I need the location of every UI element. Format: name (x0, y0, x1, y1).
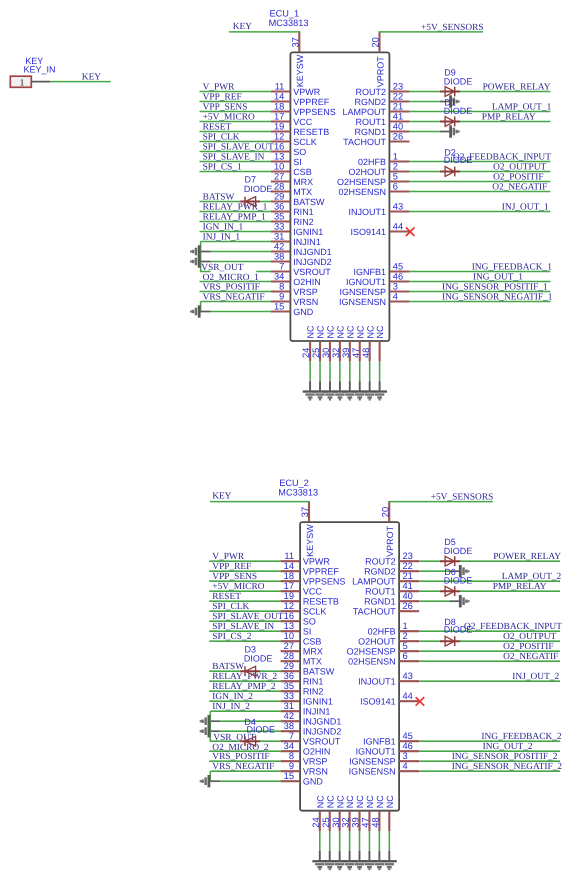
ground NC pin (382, 860, 397, 870)
svg-text:O2_NEGATIF: O2_NEGATIF (503, 652, 558, 662)
svg-text:INJOUT1: INJOUT1 (358, 677, 396, 687)
svg-text:BATSW: BATSW (212, 662, 244, 672)
svg-text:TACHOUT: TACHOUT (343, 137, 386, 147)
svg-text:TACHOUT: TACHOUT (353, 607, 396, 617)
svg-text:CSB: CSB (293, 167, 312, 177)
pin 12 SCLK (left row SPI_CLK) (200, 131, 317, 147)
pin 17 VCC (left row +5V_MICRO) (200, 111, 313, 127)
ground RGND1 (459, 595, 470, 607)
svg-text:NC: NC (316, 325, 326, 338)
svg-text:30: 30 (321, 348, 331, 358)
svg-text:RGND2: RGND2 (364, 567, 396, 577)
svg-text:ING_OUT_2: ING_OUT_2 (483, 742, 533, 752)
svg-text:INJ_OUT_2: INJ_OUT_2 (512, 672, 559, 682)
pin 4 IGNSENSN (right row ING_SENSOR_NEGATIF_1) (339, 291, 550, 307)
svg-text:BATSW: BATSW (303, 667, 335, 677)
pin 28 MTX (left row n/c) (281, 651, 322, 667)
svg-text:9: 9 (289, 761, 294, 771)
svg-text:37: 37 (290, 37, 300, 47)
ground INJGND1 (200, 715, 211, 727)
svg-text:DIODE: DIODE (444, 546, 473, 556)
svg-text:SPI_SLAVE_OUT: SPI_SLAVE_OUT (203, 142, 274, 152)
svg-text:DIODE: DIODE (444, 106, 473, 116)
svg-text:3: 3 (393, 281, 398, 291)
NC pin 39 (351, 795, 366, 861)
NC pin 32 (331, 325, 346, 391)
svg-text:SCLK: SCLK (303, 607, 327, 617)
svg-text:46: 46 (403, 741, 413, 751)
svg-text:23: 23 (403, 551, 413, 561)
svg-text:IGNFB1: IGNFB1 (353, 267, 386, 277)
NC pin 30 (321, 325, 336, 391)
NC pin 47 (351, 325, 366, 391)
wire vertical join GND row (200, 302, 202, 312)
svg-text:17: 17 (274, 111, 284, 121)
svg-text:NC: NC (355, 325, 365, 338)
pin 36 RIN1 (left row RELAY_PWR_2) (209, 671, 323, 687)
pin 42 INJGND1 (left row n/c) (201, 241, 332, 256)
svg-text:33: 33 (284, 691, 294, 701)
svg-text:31: 31 (284, 701, 294, 711)
wire +5V_SENSORS from pin 20 (379, 31, 484, 33)
svg-text:O2HOUT: O2HOUT (358, 637, 396, 647)
diode D5 (440, 556, 460, 566)
svg-text:40: 40 (403, 591, 413, 601)
svg-text:NC: NC (315, 795, 325, 808)
svg-text:SPI_SLAVE_OUT: SPI_SLAVE_OUT (212, 612, 283, 622)
svg-text:MTX: MTX (293, 187, 312, 197)
svg-text:23: 23 (393, 81, 403, 91)
svg-text:36: 36 (274, 201, 284, 211)
svg-text:12: 12 (284, 601, 294, 611)
svg-text:ING_SENSOR_NEGATIF_2: ING_SENSOR_NEGATIF_2 (452, 762, 563, 772)
svg-text:25: 25 (311, 348, 321, 358)
pin 34 O2HIN (left row O2_MICRO_2) (209, 741, 330, 757)
svg-text:SPI_CLK: SPI_CLK (203, 132, 240, 142)
diode D2 (440, 167, 460, 177)
svg-text:O2HOUT: O2HOUT (348, 167, 386, 177)
pin 17 VCC (left row +5V_MICRO) (209, 581, 322, 597)
pin 2 O2HOUT (right row O2_OUTPUT) (348, 161, 550, 177)
svg-text:NC: NC (335, 795, 345, 808)
diode D4 (240, 736, 260, 746)
svg-text:28: 28 (284, 651, 294, 661)
svg-text:VRSP: VRSP (303, 757, 328, 767)
svg-text:41: 41 (393, 111, 403, 121)
svg-text:44: 44 (403, 691, 413, 701)
svg-text:34: 34 (284, 741, 294, 751)
svg-text:39: 39 (341, 348, 351, 358)
svg-text:22: 22 (403, 561, 413, 571)
pin 21 LAMPOUT (right row LAMP_OUT_2) (352, 571, 560, 587)
svg-text:24: 24 (301, 348, 311, 358)
svg-text:INJGND1: INJGND1 (303, 717, 342, 727)
pin 8 VRSP (left row VRS_POSITIF) (200, 281, 318, 297)
svg-text:INJGND2: INJGND2 (303, 727, 342, 737)
svg-text:02HFB: 02HFB (368, 627, 396, 637)
ground RGND1 (449, 125, 460, 137)
pin 5 O2HSENSP (right row O2_POSITIF) (347, 641, 560, 657)
svg-text:VPWR: VPWR (293, 87, 321, 97)
svg-text:+5V_SENSORS: +5V_SENSORS (421, 23, 484, 33)
svg-text:10: 10 (284, 631, 294, 641)
svg-text:IGNIN1: IGNIN1 (293, 227, 323, 237)
svg-text:22: 22 (393, 91, 403, 101)
pin 23 ROUT2 (right row POWER_RELAY) (365, 551, 560, 567)
svg-text:INJIN1: INJIN1 (293, 237, 321, 247)
svg-text:SI: SI (303, 627, 312, 637)
svg-text:+5V_MICRO: +5V_MICRO (203, 112, 255, 122)
pin 10 CSB (left row SPI_CS_2) (209, 631, 321, 647)
svg-text:INJ_IN_1: INJ_IN_1 (203, 232, 241, 242)
svg-text:VPPSENS: VPPSENS (303, 577, 346, 587)
svg-text:RIN2: RIN2 (303, 687, 324, 697)
svg-text:IGNSENSP: IGNSENSP (339, 287, 386, 297)
svg-text:RGND1: RGND1 (354, 127, 386, 137)
svg-text:MTX: MTX (303, 657, 322, 667)
ground RGND2 (449, 95, 460, 107)
svg-text:1: 1 (403, 621, 408, 631)
svg-text:INJ_IN_2: INJ_IN_2 (212, 702, 250, 712)
svg-text:44: 44 (393, 221, 403, 231)
svg-text:6: 6 (393, 181, 398, 191)
svg-text:27: 27 (274, 171, 284, 181)
svg-text:4: 4 (403, 761, 408, 771)
svg-text:LAMP_OUT_1: LAMP_OUT_1 (492, 102, 552, 112)
svg-text:43: 43 (403, 671, 413, 681)
svg-text:BATSW: BATSW (293, 197, 325, 207)
IC ECU_2 MC33813 body (300, 522, 399, 811)
svg-text:INJ_OUT_1: INJ_OUT_1 (502, 202, 549, 212)
pin 6 02HSENSN (right row O2_NEGATIF) (348, 651, 560, 667)
pin 21 LAMPOUT (right row LAMP_OUT_1) (342, 101, 550, 117)
svg-text:VRS_POSITIF: VRS_POSITIF (212, 752, 269, 762)
pin 23 ROUT2 (right row POWER_RELAY) (355, 81, 550, 97)
svg-text:PMP_RELAY: PMP_RELAY (482, 112, 536, 122)
svg-text:RESETB: RESETB (303, 597, 339, 607)
svg-text:RESET: RESET (203, 122, 232, 132)
pin 44 ISO9141 (right row n/c) (360, 691, 419, 707)
pin 19 RESETB (left row RESET) (200, 121, 330, 137)
svg-text:DIODE: DIODE (444, 624, 473, 634)
svg-text:INJGND1: INJGND1 (293, 247, 332, 257)
pin 14 VPPREF (left row VPP_REF) (200, 91, 330, 107)
svg-text:16: 16 (274, 141, 284, 151)
svg-text:DIODE: DIODE (444, 576, 473, 586)
ground NC pin (342, 390, 357, 400)
NC pin 47 (361, 795, 376, 861)
svg-text:IGNFB1: IGNFB1 (363, 737, 396, 747)
svg-text:SPI_CLK: SPI_CLK (212, 602, 249, 612)
ground NC pin (312, 860, 327, 870)
svg-text:SPI_SLAVE_IN: SPI_SLAVE_IN (212, 622, 274, 632)
ground INJGND2 (200, 725, 211, 737)
svg-text:O2HSENSP: O2HSENSP (337, 177, 386, 187)
no-connect X on pin 44 (406, 227, 415, 236)
svg-text:SPI_SLAVE_IN: SPI_SLAVE_IN (203, 152, 265, 162)
svg-text:V_PWR: V_PWR (203, 82, 236, 92)
pin 13 SI (left row SPI_SLAVE_IN) (200, 151, 302, 167)
pin 38 INJGND2 (left row n/c) (201, 251, 332, 267)
svg-text:26: 26 (403, 601, 413, 611)
svg-text:3: 3 (403, 751, 408, 761)
svg-text:38: 38 (284, 721, 294, 731)
svg-text:15: 15 (274, 301, 284, 311)
svg-text:32: 32 (341, 817, 351, 827)
ground GND pin 15 (190, 305, 201, 317)
pin 16 SO (left row SPI_SLAVE_OUT) (209, 611, 316, 627)
svg-text:NC: NC (365, 795, 375, 808)
svg-text:O2HIN: O2HIN (303, 747, 331, 757)
svg-text:SPI_CS_2: SPI_CS_2 (212, 632, 251, 642)
pin 26 TACHOUT (right row n/c) (343, 131, 409, 147)
pin 46 IGNOUT1 (right row ING_OUT_2) (356, 741, 560, 757)
ground NC pin (313, 390, 328, 400)
svg-text:NC: NC (326, 325, 336, 338)
wire KEY to pin 37 (229, 31, 300, 33)
svg-text:VPPREF: VPPREF (293, 97, 330, 107)
svg-text:VPP_SENS: VPP_SENS (212, 572, 257, 582)
svg-text:VRS_POSITIF: VRS_POSITIF (203, 282, 260, 292)
svg-text:RIN1: RIN1 (293, 207, 314, 217)
pin 37 KEYSW stub (298, 32, 300, 53)
pin 46 IGNOUT1 (right row ING_OUT_1) (346, 271, 550, 287)
svg-text:IGNSENSP: IGNSENSP (349, 757, 396, 767)
svg-text:RESET: RESET (212, 592, 241, 602)
pin 37 KEYSW stub (308, 502, 310, 522)
svg-text:LAMPOUT: LAMPOUT (352, 577, 396, 587)
svg-text:VPPSENS: VPPSENS (293, 107, 336, 117)
svg-text:DIODE: DIODE (247, 724, 276, 734)
pin 9 VRSN (left row VRS_NEGATIF) (201, 291, 319, 307)
svg-text:19: 19 (274, 121, 284, 131)
svg-text:VRSN: VRSN (293, 297, 318, 307)
svg-text:34: 34 (274, 271, 284, 281)
diode D9 (440, 87, 460, 97)
svg-text:21: 21 (403, 571, 413, 581)
svg-text:21: 21 (393, 101, 403, 111)
wire vertical join INJ rows (209, 711, 211, 742)
svg-text:IGNOUT1: IGNOUT1 (356, 747, 396, 757)
diode D7 (240, 197, 260, 207)
svg-text:O2HIN: O2HIN (293, 277, 321, 287)
svg-text:POWER_RELAY: POWER_RELAY (483, 82, 551, 92)
svg-text:ING_OUT_1: ING_OUT_1 (473, 272, 523, 282)
svg-text:VCC: VCC (293, 117, 313, 127)
svg-text:VSROUT: VSROUT (293, 267, 331, 277)
svg-text:V_PWR: V_PWR (212, 552, 245, 562)
svg-text:40: 40 (393, 121, 403, 131)
svg-text:47: 47 (361, 817, 371, 827)
svg-text:43: 43 (393, 201, 403, 211)
pin 1 02HFB (right row O2_FEEDBACK_INPUT) (368, 621, 560, 637)
pin 13 SI (left row SPI_SLAVE_IN) (209, 621, 311, 637)
diode D3 (240, 666, 260, 676)
NC pin 32 (341, 795, 356, 861)
svg-text:15: 15 (284, 771, 294, 781)
wire vertical join INJ rows (200, 242, 202, 273)
wire +5V_SENSORS from pin 20 (388, 501, 493, 503)
svg-text:SPI_CS_1: SPI_CS_1 (203, 162, 242, 172)
svg-text:26: 26 (393, 131, 403, 141)
pin 35 RIN2 (left row RELAY_PMP_2) (209, 681, 323, 697)
svg-text:SCLK: SCLK (293, 137, 317, 147)
wire KEY from connector (50, 81, 110, 83)
svg-text:POWER_RELAY: POWER_RELAY (493, 552, 561, 562)
svg-text:GND: GND (303, 777, 324, 787)
pin 31 INJIN1 (left row INJ_IN_1) (201, 231, 321, 247)
NC pin 25 (311, 325, 326, 391)
svg-text:VRSN: VRSN (303, 767, 328, 777)
svg-text:PMP_RELAY: PMP_RELAY (493, 582, 547, 592)
svg-text:SO: SO (293, 147, 306, 157)
pin 42 INJGND1 (left row n/c) (210, 711, 341, 727)
pin 33 IGNIN1 (left row IGN_IN_1) (200, 221, 324, 237)
svg-text:RELAY_PWR_1: RELAY_PWR_1 (203, 202, 268, 212)
ground NC pin (362, 390, 377, 400)
svg-text:8: 8 (289, 751, 294, 761)
pin 18 VPPSENS (left row VPP_SENS) (200, 101, 336, 117)
svg-text:02HFB: 02HFB (358, 157, 386, 167)
svg-text:ROUT1: ROUT1 (365, 587, 396, 597)
svg-text:MC33813: MC33813 (278, 488, 318, 498)
NC pin 48 (361, 325, 376, 391)
svg-text:5: 5 (403, 641, 408, 651)
ground NC pin (342, 860, 357, 870)
svg-text:LAMP_OUT_2: LAMP_OUT_2 (502, 572, 562, 582)
ground NC pin (372, 390, 387, 400)
pin 1 02HFB (right row O2_FEEDBACK_INPUT) (358, 151, 550, 167)
svg-text:KEY_IN: KEY_IN (24, 64, 56, 74)
svg-text:O2_NEGATIF: O2_NEGATIF (492, 182, 547, 192)
svg-text:MC33813: MC33813 (269, 18, 309, 28)
pin 43 INJOUT1 (right row INJ_OUT_2) (358, 671, 560, 687)
pin 20 VPROT stub (388, 502, 390, 522)
svg-text:NC: NC (365, 325, 375, 338)
svg-text:18: 18 (284, 571, 294, 581)
svg-text:O2HSENSP: O2HSENSP (347, 647, 396, 657)
svg-text:NC: NC (335, 325, 345, 338)
pin 4 IGNSENSN (right row ING_SENSOR_NEGATIF_2) (349, 761, 560, 777)
svg-text:O2_OUTPUT: O2_OUTPUT (493, 162, 546, 172)
pin 20 VPROT stub (378, 32, 380, 53)
svg-text:VRS_NEGATIF: VRS_NEGATIF (203, 292, 265, 302)
pin 12 SCLK (left row SPI_CLK) (209, 601, 326, 617)
svg-text:NC: NC (325, 795, 335, 808)
ground NC pin (332, 860, 347, 870)
svg-text:VSROUT: VSROUT (303, 737, 341, 747)
svg-text:5: 5 (393, 171, 398, 181)
svg-text:11: 11 (275, 81, 285, 91)
svg-text:O2_POSITIF: O2_POSITIF (503, 642, 554, 652)
svg-text:35: 35 (284, 681, 294, 691)
ground NC pin (322, 860, 337, 870)
svg-text:NC: NC (355, 795, 365, 808)
connector lead (32, 81, 51, 83)
pin 31 INJIN1 (left row INJ_IN_2) (210, 701, 330, 717)
pin 18 VPPSENS (left row VPP_SENS) (209, 571, 345, 587)
pin 14 VPPREF (left row VPP_REF) (209, 561, 339, 577)
pin 19 RESETB (left row RESET) (209, 591, 339, 607)
svg-text:25: 25 (321, 817, 331, 827)
pin 34 O2HIN (left row O2_MICRO_1) (200, 271, 321, 287)
svg-text:RGND1: RGND1 (364, 597, 396, 607)
svg-text:ING_SENSOR_POSITIF_1: ING_SENSOR_POSITIF_1 (442, 282, 548, 292)
svg-text:02HSENSN: 02HSENSN (348, 657, 396, 667)
svg-text:VPPREF: VPPREF (303, 567, 340, 577)
svg-text:NC: NC (306, 325, 316, 338)
NC pin 48 (370, 795, 385, 861)
svg-text:29: 29 (274, 191, 284, 201)
svg-text:INJOUT1: INJOUT1 (348, 207, 386, 217)
svg-text:39: 39 (351, 817, 361, 827)
diode D6 (440, 586, 460, 596)
svg-text:14: 14 (274, 91, 284, 101)
pin 11 VPWR (left row V_PWR) (200, 81, 321, 97)
NC pin 25 (321, 795, 336, 861)
ground NC pin (332, 390, 347, 400)
IC ECU_1 MC33813 body (290, 52, 389, 341)
NC pin 24 (301, 325, 316, 391)
svg-text:SI: SI (293, 157, 302, 167)
svg-text:O2_FEEDBACK_INPUT: O2_FEEDBACK_INPUT (464, 622, 562, 632)
svg-text:12: 12 (274, 131, 284, 141)
pin 11 VPWR (left row V_PWR) (209, 551, 330, 567)
svg-text:11: 11 (284, 551, 294, 561)
svg-text:O2_POSITIF: O2_POSITIF (493, 172, 544, 182)
svg-text:+5V_SENSORS: +5V_SENSORS (431, 493, 494, 503)
svg-text:MRX: MRX (293, 177, 313, 187)
pin 29 BATSW (left row BATSW) (209, 661, 335, 677)
svg-text:ISO9141: ISO9141 (360, 697, 396, 707)
pin 3 IGNSENSP (right row ING_SENSOR_POSITIF_2) (349, 751, 560, 767)
svg-text:1: 1 (393, 151, 398, 161)
svg-text:13: 13 (274, 151, 284, 161)
ground GND pin 15 (200, 775, 211, 787)
svg-text:27: 27 (284, 641, 294, 651)
svg-text:8: 8 (279, 281, 284, 291)
pin 40 RGND1 (right row n/c) (354, 121, 449, 137)
pin 26 TACHOUT (right row n/c) (353, 601, 419, 617)
svg-text:ING_FEEDBACK_1: ING_FEEDBACK_1 (472, 262, 553, 272)
wire vertical join GND row (209, 771, 211, 781)
svg-text:NC: NC (345, 795, 355, 808)
svg-text:36: 36 (284, 671, 294, 681)
diode D8 (440, 636, 460, 646)
svg-text:46: 46 (393, 271, 403, 281)
svg-text:VPROT: VPROT (375, 56, 385, 88)
svg-text:9: 9 (279, 291, 284, 301)
svg-text:18: 18 (274, 101, 284, 111)
svg-text:KEYSW: KEYSW (295, 54, 305, 87)
svg-text:13: 13 (284, 621, 294, 631)
svg-text:6: 6 (403, 651, 408, 661)
svg-text:SO: SO (303, 617, 316, 627)
svg-text:RGND2: RGND2 (354, 97, 386, 107)
svg-text:2: 2 (403, 631, 408, 641)
pin 3 IGNSENSP (right row ING_SENSOR_POSITIF_1) (339, 281, 550, 297)
svg-text:20: 20 (371, 37, 381, 47)
pin 22 RGND2 (right row n/c) (364, 561, 459, 577)
pin 8 VRSP (left row VRS_POSITIF) (209, 751, 327, 767)
svg-text:INJIN1: INJIN1 (303, 707, 331, 717)
pin 15 GND (left row n/c) (210, 771, 323, 787)
svg-text:ING_FEEDBACK_2: ING_FEEDBACK_2 (481, 732, 562, 742)
svg-text:45: 45 (403, 731, 413, 741)
svg-text:IGNSENSN: IGNSENSN (349, 767, 396, 777)
pin 41 ROUT1 (right row PMP_RELAY) (365, 581, 560, 597)
svg-text:CSB: CSB (303, 637, 322, 647)
